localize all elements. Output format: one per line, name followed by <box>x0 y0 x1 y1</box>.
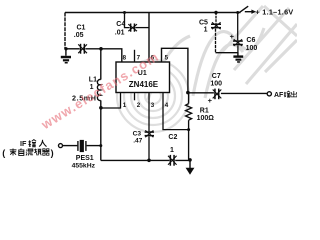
svg-text:1: 1 <box>170 147 174 154</box>
svg-text:C1: C1 <box>77 25 86 32</box>
capacitor C7 <box>188 73 267 105</box>
node C3 bottom <box>147 159 151 163</box>
svg-text:C7: C7 <box>212 73 221 80</box>
pin 2 stub <box>134 93 136 101</box>
ceramic filter PES1 <box>72 140 96 170</box>
IC U1 ZN416E <box>116 62 170 93</box>
svg-text:): ) <box>51 148 54 158</box>
svg-text:R1: R1 <box>200 107 209 114</box>
node C1 left <box>64 47 67 50</box>
output terminal <box>267 92 271 96</box>
capacitor C1 <box>74 25 87 54</box>
svg-text:(: ( <box>2 148 5 158</box>
resistor R1 <box>186 93 215 160</box>
pin 7 stub <box>134 50 136 62</box>
svg-text:IF: IF <box>20 139 27 148</box>
svg-text:2: 2 <box>137 102 141 109</box>
svg-text:L1: L1 <box>89 76 97 83</box>
svg-text:100: 100 <box>246 45 258 52</box>
svg-text:455kHz: 455kHz <box>72 163 96 170</box>
wire rail left drop <box>64 13 66 49</box>
ground arrow <box>186 160 195 175</box>
svg-text:8: 8 <box>123 55 127 62</box>
svg-text:.05: .05 <box>74 32 84 39</box>
svg-text:.01: .01 <box>115 29 125 36</box>
label AF output <box>274 91 297 99</box>
switch S1 <box>239 6 248 12</box>
svg-text:100: 100 <box>210 81 222 88</box>
svg-text:C4: C4 <box>116 21 125 28</box>
wire pin4 to R1 <box>163 93 189 130</box>
watermark grey diagonals <box>148 6 297 100</box>
node pin4/R1 <box>187 128 190 131</box>
watermark grey rings <box>117 60 189 132</box>
svg-text:4: 4 <box>165 102 169 109</box>
svg-text:C2: C2 <box>168 134 177 141</box>
svg-text:1: 1 <box>123 102 127 109</box>
svg-text:5: 5 <box>165 55 169 62</box>
svg-text:1: 1 <box>204 27 208 34</box>
svg-text:C6: C6 <box>246 37 255 44</box>
wire C1 to pin8 corner <box>85 49 121 62</box>
node output <box>186 91 190 95</box>
label from mixer <box>2 148 53 158</box>
wire C5 bottom to C6 ground <box>216 52 239 54</box>
svg-text:C3: C3 <box>133 130 142 137</box>
wire pin5 to output node <box>162 48 188 92</box>
svg-text:C5: C5 <box>199 19 208 26</box>
wire to C1 <box>65 48 80 50</box>
input terminal <box>59 144 63 148</box>
svg-text:100Ω: 100Ω <box>197 115 215 122</box>
svg-text:PES1: PES1 <box>76 155 94 162</box>
label IF input <box>20 139 47 148</box>
capacitor C2 <box>168 134 177 166</box>
wire pin1 to L1 <box>101 93 121 109</box>
svg-text:+: + <box>208 96 213 105</box>
battery arrow <box>245 10 256 14</box>
pin numbers bottom <box>123 102 169 109</box>
ground G1 <box>61 49 71 64</box>
capacitor C4 <box>115 11 149 36</box>
inductor L1 <box>72 49 101 161</box>
capacitor C3 <box>133 93 154 161</box>
wire top rail <box>65 12 241 14</box>
pin numbers top <box>123 55 169 62</box>
node L1 tap <box>99 106 103 110</box>
node ground rail <box>188 158 192 162</box>
wire bottom rail <box>101 159 190 161</box>
wire input to filter <box>63 145 78 147</box>
capacitor C5 <box>199 11 221 53</box>
svg-text:ZN416E: ZN416E <box>129 80 159 89</box>
svg-text:.47: .47 <box>133 137 142 144</box>
svg-text:AF: AF <box>274 92 284 99</box>
wire rail to pin6 <box>148 13 150 63</box>
ground G2 <box>233 53 243 63</box>
node L1 top <box>99 47 103 51</box>
capacitor C6 <box>230 11 258 53</box>
svg-text:3: 3 <box>151 102 155 109</box>
node filter tap <box>99 144 102 147</box>
svg-text:+ 1.1–1.6V: + 1.1–1.6V <box>256 7 294 16</box>
wire filter to L1 line <box>87 145 101 147</box>
